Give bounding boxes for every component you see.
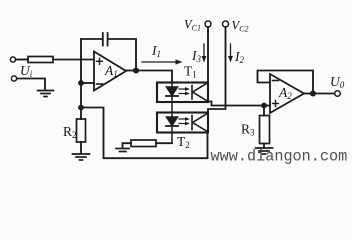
node A (A1 inverting input): [78, 80, 84, 86]
wire A2 apex to output: [304, 93, 313, 95]
node A2 output: [310, 91, 316, 97]
A2 minus sign: [273, 80, 279, 82]
wire VC1 to T1 collector: [207, 27, 209, 83]
current arrow I2: [228, 44, 233, 63]
wire top feedback to capacitor: [81, 38, 102, 40]
capacitor C1 (feedback): [103, 33, 108, 46]
T1 phototransistor: [192, 84, 207, 101]
resistor R4 (T2 LED return, unlabeled): [131, 140, 156, 147]
node C (R2 / feedback return): [78, 105, 84, 111]
wire capacitor to output corner: [109, 39, 136, 71]
terminal VC2: [223, 21, 229, 27]
wire resistor to ground: [123, 143, 132, 148]
ground (R2): [73, 154, 90, 160]
svg-text:www.diangon.com: www.diangon.com: [211, 147, 348, 166]
T1 LED: [166, 83, 178, 113]
wire A1 output to T1 LED: [136, 71, 172, 83]
op-amp A1: [94, 52, 126, 91]
wire R1 to A1 + input: [53, 59, 94, 61]
wire output to terminal: [313, 93, 335, 95]
A2 plus sign: [273, 101, 279, 107]
wire node C to bottom rail: [81, 108, 208, 159]
current arrow I3: [202, 44, 207, 63]
terminal VC1: [205, 21, 211, 27]
op-amp A2: [270, 74, 304, 113]
output terminal Uo: [335, 91, 341, 97]
wire bottom terminal to ground: [17, 79, 45, 91]
ground (LED return): [116, 149, 129, 152]
resistor R3: [263, 106, 265, 116]
T1 light arrows: [179, 87, 190, 95]
wire feedback left leg: [80, 39, 82, 108]
T2 light arrows: [179, 117, 190, 125]
A1 plus sign: [97, 58, 103, 64]
wire input to R1: [16, 59, 28, 61]
node B (A2 + input / R3): [261, 103, 267, 109]
T2 LED: [166, 113, 178, 144]
optocoupler T2 box: [157, 113, 208, 133]
optocoupler T1 box: [157, 83, 208, 103]
wire VC2 to T2 collector: [208, 27, 226, 113]
wire A2 feedback: [258, 71, 314, 94]
input terminal top: [10, 57, 15, 62]
ground (R3): [256, 148, 273, 154]
wire T1 emitter to A2 + input: [208, 102, 270, 106]
wire A1 apex to output node: [126, 70, 136, 72]
wire node A to A1 - input: [81, 82, 94, 84]
resistor R2: [80, 108, 82, 120]
wire resistor to T2 LED cathode: [156, 142, 172, 144]
resistor R1 (input, unlabeled): [28, 57, 53, 63]
node A1 output: [133, 68, 139, 74]
ground (input): [38, 91, 54, 97]
T2 phototransistor: [192, 114, 207, 131]
input terminal bottom: [11, 76, 16, 81]
A1 minus sign: [97, 83, 103, 85]
current arrow I1: [142, 59, 183, 64]
